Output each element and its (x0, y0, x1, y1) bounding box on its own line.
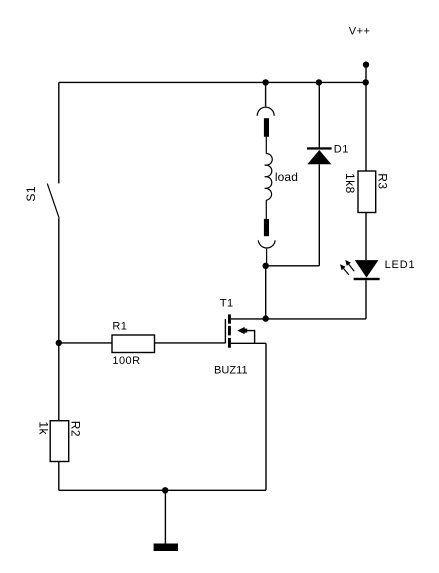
node ground junction (162, 487, 168, 493)
svg-text:LED1: LED1 (385, 259, 416, 271)
svg-text:load: load (275, 170, 298, 184)
resistor R1 (112, 335, 155, 353)
node load bottom junction (263, 263, 269, 269)
wire D1 anode (318, 164, 320, 265)
wire source horizontal (231, 342, 267, 344)
svg-text:S1: S1 (24, 186, 38, 202)
wire gate left segment (59, 342, 112, 344)
svg-text:1k8: 1k8 (343, 173, 357, 194)
wire left lower vertical (58, 218, 60, 420)
node top-load junction (262, 79, 268, 85)
wire bottom bus (59, 489, 266, 491)
resistor R2 (50, 421, 68, 462)
node drain junction (263, 315, 269, 321)
svg-text:V++: V++ (349, 26, 371, 38)
wire load to D1 (266, 265, 320, 267)
LED LED1 (340, 260, 380, 280)
node top-R3 junction (363, 79, 369, 85)
svg-text:1k: 1k (36, 421, 50, 435)
wire top bus (59, 81, 366, 83)
transistor T1 (225, 314, 254, 347)
svg-text:R2: R2 (68, 421, 82, 437)
wire source vertical (265, 343, 267, 490)
wire left upper vertical (58, 82, 60, 183)
inductor load (257, 107, 275, 266)
svg-text:T1: T1 (220, 298, 234, 310)
wire drain horizontal (231, 318, 366, 320)
wire R3 to LED (365, 213, 367, 261)
wire R2 bottom (58, 462, 60, 491)
wire R3 top (365, 82, 367, 171)
diode D1 (307, 147, 332, 164)
wire LED to drain vertical (365, 280, 367, 319)
power V++ terminal (363, 61, 369, 82)
svg-text:R3: R3 (375, 173, 389, 189)
svg-text:BUZ11: BUZ11 (214, 364, 248, 376)
node R1 gate junction (56, 340, 62, 346)
wire gate right segment (155, 342, 226, 344)
ground (154, 490, 178, 551)
switch S1 blade (47, 184, 59, 219)
wire load top (265, 82, 267, 106)
wire load junction to drain (265, 266, 267, 319)
wire D1 cathode (318, 82, 320, 147)
node top-D1 junction (316, 79, 322, 85)
svg-text:100R: 100R (112, 355, 140, 367)
resistor R3 (358, 171, 376, 213)
svg-text:R1: R1 (112, 320, 127, 332)
svg-text:D1: D1 (334, 144, 349, 156)
